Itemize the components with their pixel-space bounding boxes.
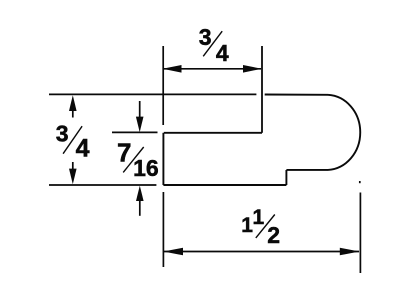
dimension line: bottom 1-1/2: [164, 251, 359, 253]
slash: left 3/4: [63, 126, 82, 154]
arrow: left 3/4 up: [69, 95, 77, 111]
extension line: left 3/4 dim, top (collinear with profile top edge): [49, 93, 256, 95]
arrow: left 3/4 down: [69, 169, 77, 185]
arrow: 7/16 bottom (pointing up): [136, 186, 144, 201]
svg-text:16: 16: [133, 155, 159, 181]
svg-text:4: 4: [216, 40, 229, 66]
profile bullnose curve (right rounded end): [328, 95, 360, 170]
arrowhead: bottom 1-1/2 right: [340, 248, 360, 256]
svg-text:3: 3: [56, 121, 69, 147]
svg-text:3: 3: [199, 24, 212, 50]
extension line: bottom 1-1/2 dim, right vertical (with small dash above): [359, 181, 361, 183]
profile notch top edge: [164, 132, 262, 134]
arrowhead: bottom 1-1/2 left: [163, 248, 183, 256]
arrow: 7/16 top (pointing down): [139, 101, 141, 118]
extension line: left 3/4 dim, bottom (collinear with profile bottom edge): [49, 184, 156, 186]
profile notch right vertical merged with top 3/4 right extension line: [261, 46, 263, 133]
svg-text:1: 1: [241, 214, 253, 237]
slash: top 3/4: [203, 31, 222, 56]
svg-text:4: 4: [76, 135, 90, 163]
extension line: top 3/4 dim, left vertical: [162, 46, 164, 125]
svg-text:7: 7: [117, 137, 131, 167]
slash: bottom 1/2: [256, 215, 275, 238]
arrowhead: top 3/4 right: [243, 65, 262, 73]
dimension line: top 3/4: [164, 68, 261, 70]
profile top edge: [265, 94, 328, 96]
arrowhead: top 3/4 left: [163, 65, 182, 73]
svg-text:1: 1: [252, 206, 264, 229]
extension line: 7/16 dim, top: [112, 131, 158, 133]
profile lower-right edge: [286, 169, 328, 171]
svg-text:2: 2: [267, 222, 280, 248]
extension line: bottom 1-1/2 dim, left vertical: [162, 192, 164, 267]
profile bottom edge: [163, 184, 286, 186]
profile step (small vertical): [285, 170, 287, 185]
profile notch left edge: [162, 133, 164, 185]
slash: 7/16: [123, 147, 144, 172]
